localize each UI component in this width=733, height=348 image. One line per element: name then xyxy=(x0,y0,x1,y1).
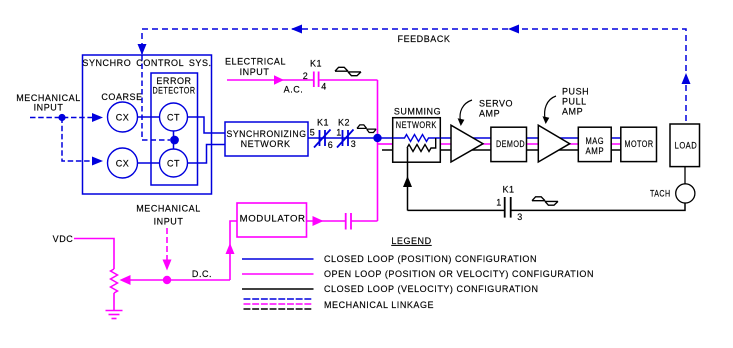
wire: bottom CT output to synchronizing network xyxy=(188,145,226,164)
svg-text:CX: CX xyxy=(116,113,130,123)
op-amp push pull amplifier triangle xyxy=(538,125,569,162)
svg-text:AMP: AMP xyxy=(586,146,605,156)
wire: blue line from synchronizing network to summing network xyxy=(308,137,393,139)
relay contact K1 5-6 (normally closed) xyxy=(314,130,331,148)
wire: CX to CT bottom xyxy=(138,162,161,164)
pointer arrow to servo amp xyxy=(460,100,472,121)
pointer arrow to push pull amp xyxy=(545,96,556,119)
legend dashed black line xyxy=(244,308,314,310)
svg-text:SERVO: SERVO xyxy=(479,99,513,109)
svg-text:AMP: AMP xyxy=(479,109,500,119)
svg-text:INPUT: INPUT xyxy=(240,67,270,77)
wire: TACH down to velocity loop xyxy=(511,203,685,210)
legend dashed magenta line xyxy=(244,303,314,305)
svg-text:1: 1 xyxy=(496,198,502,208)
box: SUMMING NETWORK xyxy=(393,118,441,163)
svg-text:PULL: PULL xyxy=(562,97,587,107)
svg-text:DEMOD: DEMOD xyxy=(496,139,525,149)
svg-text:MECHANICAL: MECHANICAL xyxy=(16,93,81,103)
svg-text:COARSE: COARSE xyxy=(101,92,142,102)
legend blue line xyxy=(242,258,314,260)
box: ERROR DETECTOR xyxy=(151,73,198,185)
wire: LOAD to TACH xyxy=(684,167,686,184)
svg-text:K1: K1 xyxy=(310,59,322,69)
node: mech input junction dot xyxy=(58,114,65,121)
wire: feedback mechanical linkage dashed blue from LOAD up and across to synchro box xyxy=(142,29,686,121)
svg-text:2: 2 xyxy=(303,71,309,81)
svg-text:INPUT: INPUT xyxy=(154,217,184,227)
svg-text:SYNCHRO CONTROL SYS.: SYNCHRO CONTROL SYS. xyxy=(82,58,211,68)
svg-text:CX: CX xyxy=(116,159,130,169)
arrowhead down into synchro box xyxy=(138,44,147,55)
wire: vertical between CT circles xyxy=(173,131,175,149)
arrowhead right on modulator output xyxy=(313,216,324,226)
box: MODULATOR xyxy=(237,203,307,237)
svg-text:K1: K1 xyxy=(502,185,514,195)
svg-text:LOAD: LOAD xyxy=(675,140,698,150)
box: MOTOR xyxy=(621,127,657,161)
svg-text:D.C.: D.C. xyxy=(192,269,212,279)
svg-text:MECHANICAL LINKAGE: MECHANICAL LINKAGE xyxy=(324,300,434,310)
wire: dashed mechanical input to top CX xyxy=(30,117,96,119)
svg-text:ERROR: ERROR xyxy=(156,76,191,86)
legend black line xyxy=(242,288,314,290)
svg-text:MOTOR: MOTOR xyxy=(625,139,654,149)
wire: A.C. line after contact to corner xyxy=(319,79,378,81)
svg-text:NETWORK: NETWORK xyxy=(396,120,437,130)
wire: capacitor to vertical bus xyxy=(351,220,378,222)
svg-text:TACH: TACH xyxy=(650,189,671,199)
wire: magenta vertical open-loop bus xyxy=(377,80,379,221)
box: MAG AMP xyxy=(578,127,611,161)
svg-text:K2: K2 xyxy=(338,118,350,128)
tachometer TACH circle xyxy=(676,184,695,203)
svg-text:FEEDBACK: FEEDBACK xyxy=(398,34,451,44)
arrowhead up into summing network xyxy=(403,176,412,187)
sine symbol near K2 contact xyxy=(357,125,376,133)
svg-text:6: 6 xyxy=(328,140,334,150)
resistor blue in summing network xyxy=(393,135,441,142)
sine symbol near A.C. contact xyxy=(335,67,361,75)
synchro CT bottom xyxy=(160,149,188,177)
arrowhead left into potentiometer wiper xyxy=(120,275,131,285)
wire: D.C. line from potentiometer to modulator riser xyxy=(128,279,230,281)
synchro CX top xyxy=(108,102,138,132)
arrowhead right into top CX xyxy=(92,113,103,122)
svg-text:CLOSED LOOP (VELOCITY) CONFIGU: CLOSED LOOP (VELOCITY) CONFIGURATION xyxy=(324,284,539,294)
svg-text:4: 4 xyxy=(321,82,327,92)
synchro CX bottom xyxy=(108,148,138,178)
wire: top CT output to synchronizing network xyxy=(188,117,226,133)
svg-text:OPEN LOOP (POSITION OR VELOCIT: OPEN LOOP (POSITION OR VELOCITY) CONFIGU… xyxy=(324,269,594,279)
wire: velocity loop left of contact xyxy=(408,209,505,211)
svg-text:MAG: MAG xyxy=(586,136,605,146)
svg-text:NETWORK: NETWORK xyxy=(241,139,291,149)
node: junction dot on CT link xyxy=(170,136,179,145)
svg-text:AMP: AMP xyxy=(562,107,583,117)
svg-text:INPUT: INPUT xyxy=(34,103,64,113)
svg-text:5: 5 xyxy=(310,128,316,138)
svg-text:LEGEND: LEGEND xyxy=(391,236,431,246)
op-amp servo amplifier triangle xyxy=(451,125,483,162)
arrowhead left on feedback horizontal (left) xyxy=(291,25,302,34)
wire: black velocity-loop line through amps to motor xyxy=(382,149,408,151)
arrowhead down to D.C. junction xyxy=(163,260,172,271)
svg-text:SUMMING: SUMMING xyxy=(394,107,441,117)
svg-text:CLOSED LOOP (POSITION) CONFIGU: CLOSED LOOP (POSITION) CONFIGURATION xyxy=(324,254,537,264)
wire: dashed mechanical linkage inside synchro box xyxy=(142,55,170,140)
svg-text:A.C.: A.C. xyxy=(284,85,304,95)
capacitor plates after modulator xyxy=(346,213,351,230)
arrowhead up on modulator riser xyxy=(226,243,235,254)
wire: blue closed-loop line through amps to motor xyxy=(440,137,630,139)
svg-text:ELECTRICAL: ELECTRICAL xyxy=(225,57,286,67)
svg-text:VDC: VDC xyxy=(53,234,74,244)
svg-text:3: 3 xyxy=(351,139,357,149)
synchro CT top xyxy=(160,103,188,131)
wire: riser up to modulator input xyxy=(230,221,237,280)
box: SYNCHRONIZING NETWORK xyxy=(225,122,308,156)
ground symbol xyxy=(106,311,123,319)
box: SYNCHRO CONTROL SYS. outer xyxy=(83,55,212,194)
svg-text:K1: K1 xyxy=(317,118,329,128)
relay contact K1 2-4 plates xyxy=(314,72,319,88)
arrowhead right on A.C. input xyxy=(274,75,284,85)
svg-text:CT: CT xyxy=(167,159,180,169)
wire: magenta open-loop line through amps to motor xyxy=(378,143,393,145)
potentiometer resistor (vertical zigzag) xyxy=(111,269,118,293)
arrowhead up on feedback vertical at load xyxy=(682,73,691,84)
node: D.C. junction dot xyxy=(163,276,171,284)
box: LOAD xyxy=(670,124,700,167)
svg-text:1: 1 xyxy=(336,128,342,138)
wire: modulator output xyxy=(307,220,346,222)
box: DEMOD xyxy=(491,127,527,161)
wire: black vertical into summing network xyxy=(407,148,409,211)
legend dashed blue line xyxy=(244,298,314,300)
relay contact K1 1-3 plates (velocity loop) xyxy=(505,197,511,218)
svg-text:MECHANICAL: MECHANICAL xyxy=(136,204,201,214)
wire: resistor to ground xyxy=(113,293,115,310)
svg-text:DETECTOR: DETECTOR xyxy=(153,86,196,96)
node: summing junction dot blue xyxy=(373,134,381,142)
svg-text:MODULATOR: MODULATOR xyxy=(240,213,306,223)
svg-text:3: 3 xyxy=(517,212,523,222)
wire: dashed mechanical input down and to bottom CX xyxy=(62,118,96,162)
svg-text:SYNCHRONIZING: SYNCHRONIZING xyxy=(227,129,307,139)
resistor black in summing network xyxy=(407,138,436,152)
wire: VDC feed xyxy=(74,239,114,270)
arrowhead left on feedback horizontal (right) xyxy=(508,25,519,34)
svg-text:CT: CT xyxy=(167,113,180,123)
legend magenta line xyxy=(242,273,314,275)
sine symbol near velocity contact xyxy=(532,197,558,205)
wire: dashed mechanical input down to D.C. line xyxy=(166,228,168,261)
wire: electrical input A.C. line xyxy=(227,79,313,81)
wire: CX to CT top xyxy=(138,116,161,118)
relay contact K2 1-3 (normally closed) xyxy=(337,130,354,148)
arrowhead right into bottom CX xyxy=(92,157,103,166)
svg-text:PUSH: PUSH xyxy=(562,87,589,97)
